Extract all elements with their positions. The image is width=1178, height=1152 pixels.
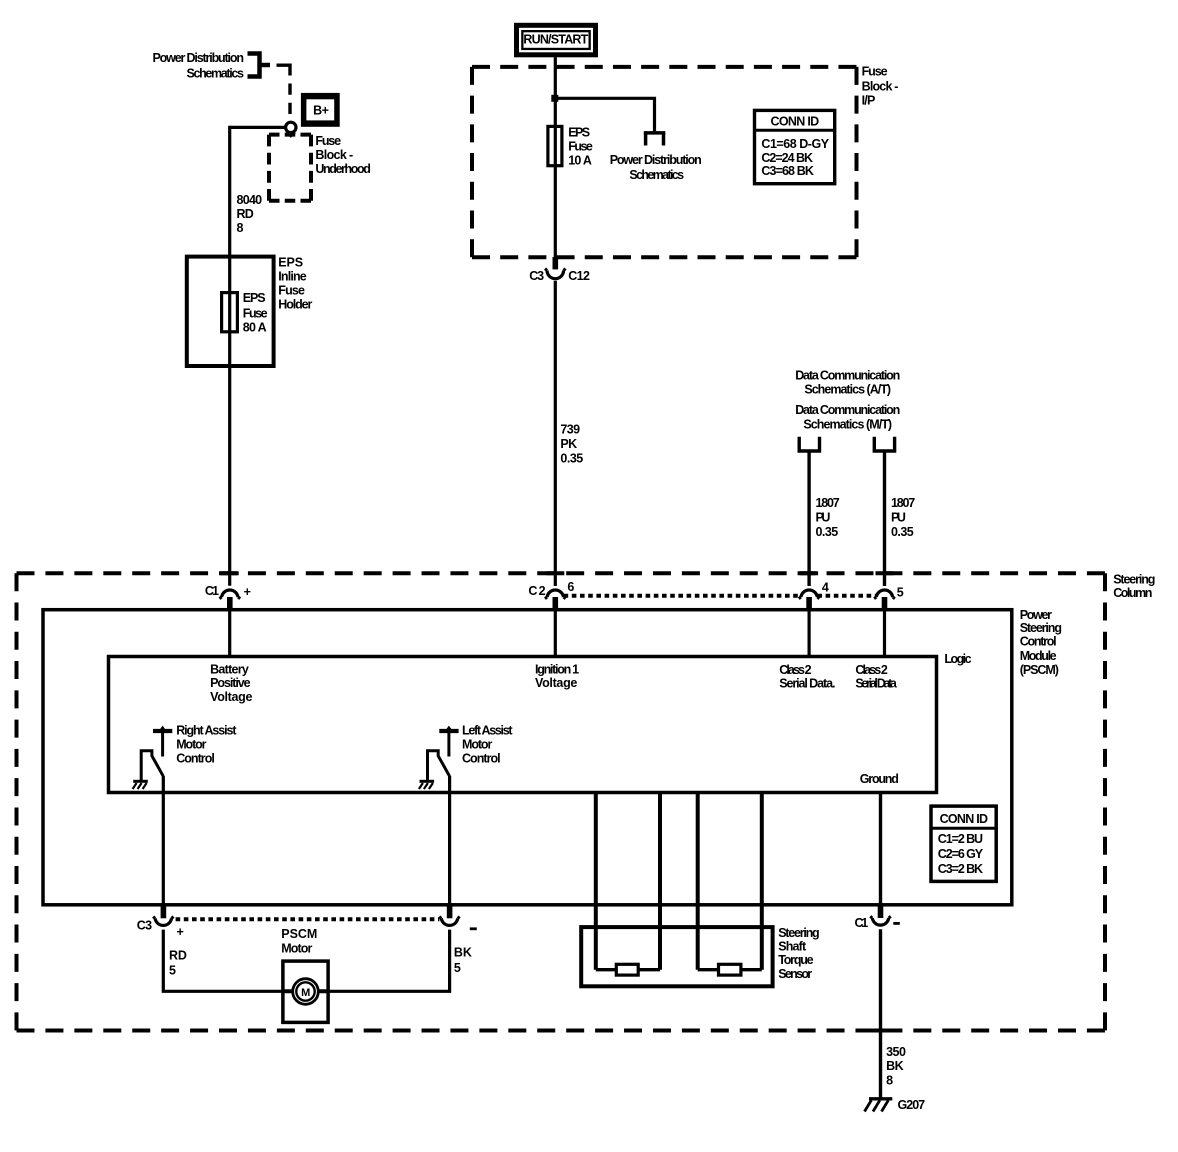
svg-text:Schematics (A/T): Schematics (A/T) <box>804 383 891 397</box>
wire arc4 to logic box <box>807 610 810 657</box>
svg-text:M: M <box>301 987 310 999</box>
label Power Steering Control Module (PSCM) <box>1020 608 1062 677</box>
label Data Communication Schematics (M/T) <box>795 403 900 431</box>
connector C1 - cup <box>872 918 888 925</box>
svg-text:8040: 8040 <box>237 193 263 207</box>
svg-text:Fuse: Fuse <box>243 307 268 321</box>
connector C3 + cup <box>155 918 171 925</box>
bracket data communication M/T <box>874 437 894 451</box>
svg-text:Control: Control <box>462 752 500 766</box>
label PSCM Motor <box>281 927 317 956</box>
svg-text:EPS: EPS <box>243 291 266 305</box>
svg-text:Class 2: Class 2 <box>779 663 811 677</box>
svg-text:Schematics: Schematics <box>629 168 684 182</box>
svg-text:Data Communication: Data Communication <box>795 403 900 417</box>
svg-text:RD: RD <box>169 948 187 962</box>
dotted motor connector link <box>176 917 440 921</box>
svg-text:+: + <box>244 585 251 599</box>
svg-text:Serial Data.: Serial Data. <box>779 677 835 691</box>
connector - cup <box>441 918 457 925</box>
svg-text:EPS: EPS <box>278 255 302 269</box>
label 1807 PU 0.35 (M/T) <box>891 496 915 539</box>
label Steering Shaft Torque Sensor <box>778 926 819 981</box>
svg-text:Steering: Steering <box>1113 572 1155 586</box>
svg-text:C3: C3 <box>137 919 152 933</box>
svg-text:Block -: Block - <box>862 80 899 94</box>
logic box <box>109 657 937 793</box>
svg-text:PK: PK <box>560 437 577 451</box>
connector - pin <box>447 905 453 918</box>
svg-text:C1=2 BU: C1=2 BU <box>938 832 983 846</box>
svg-text:350: 350 <box>886 1045 906 1059</box>
svg-text:C12: C12 <box>568 269 590 283</box>
left assist switch contact <box>439 729 458 733</box>
label 350 BK 8 <box>886 1045 906 1088</box>
label Fuse Block - Underhood <box>315 134 370 176</box>
wire right assist motor control (down from blade) <box>162 776 165 905</box>
label Steering Column <box>1113 572 1155 600</box>
wire ignition feed from RUN/START <box>554 57 557 258</box>
svg-text:Fuse: Fuse <box>862 65 888 79</box>
svg-text:Motor: Motor <box>176 738 206 752</box>
steering column dashed box <box>17 573 1106 1030</box>
fuse block underhood dashed box <box>269 135 311 201</box>
svg-text:EPS: EPS <box>568 125 590 139</box>
svg-text:Control: Control <box>176 752 214 766</box>
label 8040 RD 8 <box>237 193 263 235</box>
svg-text:Steering: Steering <box>1020 621 1062 635</box>
wire motor to - cup <box>328 930 450 992</box>
CONN ID table (fuse block I/P) <box>755 110 835 183</box>
svg-text:Battery: Battery <box>210 663 249 677</box>
svg-text:PU: PU <box>816 510 831 524</box>
svg-text:Motor: Motor <box>281 941 312 955</box>
fuse block I/P dashed box <box>472 67 857 257</box>
svg-text:5: 5 <box>169 963 176 977</box>
left assist switch blade <box>428 751 450 781</box>
bracket to Power Distribution Schematics <box>248 54 260 77</box>
dash ticks at wire crossings of steering column box <box>221 573 894 1030</box>
wire 1807 PU (M/T) <box>883 451 886 586</box>
svg-text:C2=24 BK: C2=24 BK <box>761 151 813 165</box>
svg-text:Fuse: Fuse <box>278 283 305 297</box>
sensor wire 4 <box>760 793 764 970</box>
svg-text:Data Communication: Data Communication <box>795 369 900 383</box>
label Class 2 Serial Data (left) <box>779 663 835 691</box>
ground symbol G207 <box>869 1097 892 1100</box>
svg-text:Module: Module <box>1020 649 1057 663</box>
svg-text:BK: BK <box>886 1059 904 1073</box>
svg-text:Right Assist: Right Assist <box>176 724 237 738</box>
EPS inline fuse holder box <box>187 257 274 366</box>
svg-text:Ignition 1: Ignition 1 <box>535 663 579 677</box>
svg-text:Class 2: Class 2 <box>855 663 887 677</box>
svg-text:PU: PU <box>891 510 906 524</box>
svg-text:Fuse: Fuse <box>568 140 593 154</box>
svg-text:Power Distribution: Power Distribution <box>153 51 244 65</box>
svg-text:Steering: Steering <box>778 926 819 940</box>
label EPS Inline Fuse Holder <box>278 255 312 311</box>
connector arc C2 6 <box>547 590 563 597</box>
svg-text:0.35: 0.35 <box>891 525 914 539</box>
svg-text:80 A: 80 A <box>243 321 267 335</box>
steering shaft torque sensor box <box>581 927 772 986</box>
svg-text:Voltage: Voltage <box>535 676 577 690</box>
svg-text:Inline: Inline <box>278 269 306 283</box>
wire left assist motor control (down from blade) <box>448 776 451 905</box>
svg-text:8: 8 <box>886 1073 893 1087</box>
svg-text:C3: C3 <box>529 269 544 283</box>
svg-text:8: 8 <box>237 221 244 235</box>
splice ring S1 <box>286 122 296 132</box>
svg-text:+: + <box>177 925 184 939</box>
svg-text:Ground: Ground <box>860 772 899 786</box>
svg-text:Motor: Motor <box>462 738 492 752</box>
sensor wire 1 <box>594 793 598 970</box>
svg-text:Fuse: Fuse <box>315 134 341 148</box>
label Power Distribution Schematics (I/P) <box>610 153 702 182</box>
svg-text:G207: G207 <box>898 1098 926 1112</box>
PSCM outer box <box>43 610 1012 905</box>
resistor (torque sensor 1) <box>616 964 638 975</box>
svg-text:1807: 1807 <box>891 496 915 510</box>
svg-text:PSCM: PSCM <box>281 927 317 941</box>
bracket data communication A/T <box>799 437 819 451</box>
svg-text:Schematics: Schematics <box>187 67 244 81</box>
connector C3/C12 cup <box>547 270 564 278</box>
dashed wire from bracket to splice <box>277 65 291 75</box>
motor stubs <box>283 989 328 993</box>
svg-text:B+: B+ <box>313 104 329 118</box>
right assist switch contact <box>153 729 172 733</box>
fuse EPS 10 A <box>548 126 562 165</box>
sensor wire 3 <box>696 793 700 970</box>
svg-text:0.35: 0.35 <box>560 452 583 466</box>
wire battery feed vertical 8040 RD <box>228 126 231 586</box>
label Power Distribution Schematics (top left) <box>153 51 244 81</box>
svg-text:C3=68 BK: C3=68 BK <box>761 164 813 178</box>
wire 1807 PU (A/T) <box>807 451 810 586</box>
wire 739 PK below C3/C12 <box>554 281 557 586</box>
svg-text:Torque: Torque <box>778 953 813 967</box>
left assist switch ground hatch <box>420 780 435 783</box>
svg-text:C1=68 D-GY: C1=68 D-GY <box>761 137 829 151</box>
svg-text:0.35: 0.35 <box>816 525 839 539</box>
wire arc5 to logic box <box>883 610 886 657</box>
connector C1 - pin <box>878 905 884 918</box>
label EPS Fuse 10 A <box>568 125 593 167</box>
svg-text:(PSCM): (PSCM) <box>1020 663 1059 677</box>
label 1807 PU 0.35 (A/T) <box>816 496 840 539</box>
svg-text:Voltage: Voltage <box>210 690 252 704</box>
svg-text:CONN ID: CONN ID <box>771 114 820 128</box>
svg-text:Control: Control <box>1020 635 1056 649</box>
CONN ID table (PSCM) <box>931 806 996 881</box>
svg-text:RUN/START: RUN/START <box>523 33 588 47</box>
svg-text:Shaft: Shaft <box>778 940 807 954</box>
wire 350 BK to ground <box>879 929 882 1098</box>
svg-text:RD: RD <box>237 207 254 221</box>
dotted class 2 serial data link <box>564 594 801 598</box>
right assist switch ground hatch <box>133 780 148 783</box>
svg-text:C2=6 GY: C2=6 GY <box>938 847 984 861</box>
resistor (torque sensor 2) <box>719 964 741 975</box>
bracket power distribution (I/P) <box>644 131 666 135</box>
right assist switch blade <box>141 751 163 781</box>
connector arc 4 <box>801 590 817 597</box>
wire battery feed horizontal <box>230 126 286 129</box>
svg-text:C1: C1 <box>205 584 219 598</box>
label Right Assist Motor Control <box>176 724 237 766</box>
label 739 PK 0.35 <box>560 423 583 466</box>
svg-text:4: 4 <box>822 581 829 595</box>
svg-text:Left Assist: Left Assist <box>462 724 513 738</box>
label BK 5 <box>454 945 472 975</box>
label Data Communication Schematics (A/T) <box>795 369 900 397</box>
connector C3 + pin <box>161 905 167 918</box>
svg-text:BK: BK <box>454 945 472 959</box>
RUN/START power reference box <box>514 23 598 58</box>
label Ignition 1 Voltage <box>535 663 579 691</box>
svg-text:Power: Power <box>1020 608 1052 622</box>
svg-text:6: 6 <box>567 580 574 594</box>
label Battery Positive Voltage <box>210 663 252 704</box>
label RD 5 <box>169 948 187 977</box>
svg-text:1807: 1807 <box>816 496 840 510</box>
B+ power reference box <box>301 93 340 127</box>
label Left Assist Motor Control <box>462 724 513 766</box>
svg-text:5: 5 <box>897 586 904 600</box>
svg-text:5: 5 <box>454 961 461 975</box>
svg-text:Serial Data: Serial Data <box>855 677 897 691</box>
fuse EPS 80 A <box>222 293 238 332</box>
wire C1 arc to logic box <box>228 610 231 657</box>
sensor wire 2 <box>658 793 662 970</box>
motor M circle <box>293 979 319 1005</box>
svg-text:Sensor: Sensor <box>778 967 812 981</box>
svg-text:C1: C1 <box>855 916 869 930</box>
wire branch to power distribution bracket <box>555 98 654 131</box>
connector arc C1 + <box>222 590 238 597</box>
svg-text:Underhood: Underhood <box>315 162 370 176</box>
label EPS Fuse 80 A <box>243 291 268 335</box>
wire C2 arc to logic box <box>554 610 557 657</box>
svg-text:739: 739 <box>560 423 580 437</box>
svg-text:Logic: Logic <box>944 652 971 666</box>
label Class 2 Serial Data (right) <box>855 663 897 691</box>
svg-text:Positive: Positive <box>210 676 251 690</box>
junction dot <box>551 95 558 102</box>
label Fuse Block - I/P <box>862 65 899 108</box>
svg-text:Column: Column <box>1113 586 1152 600</box>
svg-text:10 A: 10 A <box>568 154 592 168</box>
svg-text:CONN ID: CONN ID <box>940 812 988 826</box>
svg-text:C3=2 BK: C3=2 BK <box>938 862 983 876</box>
svg-text:I/P: I/P <box>862 94 875 108</box>
svg-text:Block -: Block - <box>315 148 353 162</box>
connector C3/C12 pin <box>553 257 559 269</box>
PSCM motor box <box>283 961 328 1022</box>
wire C3 cup to motor <box>163 930 283 992</box>
wire ground from logic box <box>879 793 882 906</box>
sensor horizontal stubs <box>596 968 660 971</box>
svg-text:Holder: Holder <box>278 298 312 312</box>
connector arc 5 <box>876 590 892 597</box>
svg-text:Schematics (M/T): Schematics (M/T) <box>803 417 892 431</box>
svg-text:Power Distribution: Power Distribution <box>610 153 702 167</box>
